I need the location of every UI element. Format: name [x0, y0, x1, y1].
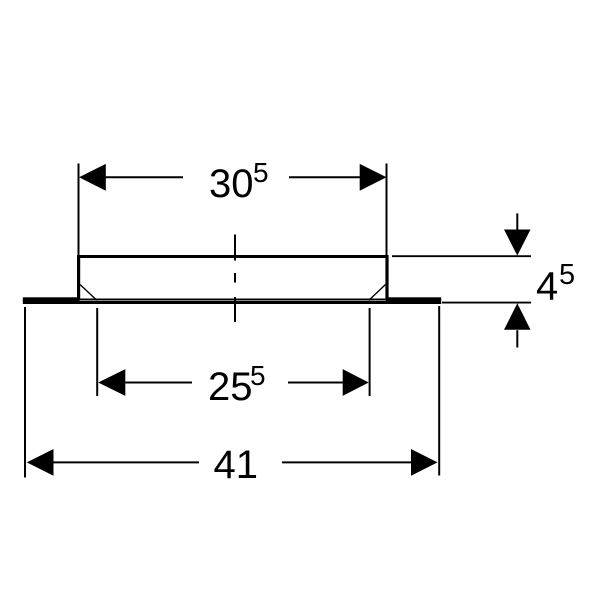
frame profile top edge [77, 255, 389, 258]
dimension 4.5: upper arrowhead (pointing down) [504, 230, 531, 256]
dimension 41: right arrowhead [411, 449, 438, 476]
dimension 41: left line segment [54, 461, 200, 463]
svg-text:5: 5 [559, 259, 575, 291]
center axis short dash [234, 273, 236, 283]
dimension 4.5: bottom leader line [442, 302, 531, 304]
dimension 30.5: left arrowhead [79, 164, 106, 191]
svg-text:5: 5 [250, 360, 266, 391]
svg-text:41: 41 [214, 443, 259, 487]
dimension 4.5: top leader line [392, 255, 531, 257]
svg-text:4: 4 [536, 264, 558, 308]
dimension 30.5: right line segment [289, 176, 360, 178]
dimension 25.5: left line segment [125, 382, 192, 384]
dimension 30.5: left extension line [78, 164, 80, 256]
dimension 25.5: right extension line [369, 308, 371, 396]
dimension 41: left arrowhead [27, 449, 54, 476]
dimension 25.5: right line segment [288, 382, 343, 384]
dimension 25.5: left extension line [96, 308, 98, 396]
dimension 41: right line segment [282, 461, 411, 463]
frame profile right edge [385, 256, 388, 299]
dimension 4.5: lower arrowhead (pointing up) [504, 303, 531, 330]
svg-text:25: 25 [208, 365, 253, 409]
svg-text:5: 5 [253, 157, 269, 188]
dimension 30.5: right arrowhead [360, 164, 387, 191]
frame bottom surface line [79, 298, 387, 300]
dimension 30.5: left line segment [106, 176, 184, 178]
right inner chamfer [369, 285, 386, 301]
left inner chamfer [80, 285, 97, 301]
base plate right end cap (full thickness) [386, 297, 441, 301]
dimension 25.5: left arrowhead [98, 369, 125, 396]
dimension 4.5: upper arrow tail [516, 213, 518, 230]
dimension 4.5: lower arrow tail [516, 330, 518, 347]
svg-text:30: 30 [209, 162, 254, 206]
frame profile left edge [77, 256, 80, 299]
center axis lower segment [234, 297, 236, 322]
dimension 41: left extension line [24, 307, 26, 478]
base plate (mounting flange, thick horizontal bar) [23, 301, 441, 304]
dimension 30.5: right extension line [386, 164, 388, 256]
center axis upper segment [234, 235, 236, 261]
dimension 25.5: right arrowhead [343, 369, 369, 396]
dimension 41: right extension line [438, 306, 440, 476]
base plate left end cap (full thickness) [23, 297, 80, 301]
